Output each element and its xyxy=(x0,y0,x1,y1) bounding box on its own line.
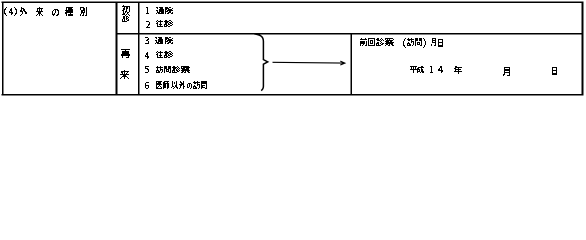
title text '(4)外 来 の 種 別' xyxy=(4,7,87,16)
item text '訪問診察' row5 xyxy=(156,66,190,73)
horizontal divider under row 2 (初診/再来 boundary) xyxy=(116,33,584,35)
header text '再来' (return visit) xyxy=(120,49,130,79)
item number 4 xyxy=(145,52,149,59)
vertical separator between title cell and visit-type column xyxy=(116,1,118,95)
item number 3 xyxy=(145,37,149,44)
item text '往診' row4 xyxy=(156,51,173,58)
box text '前回診察（訪問）月日' xyxy=(360,38,443,48)
scanned Japanese medical form fragment: outpatient type table xyxy=(0,0,586,99)
vertical separator between visit-type column and item list xyxy=(138,1,140,95)
item number 6 xyxy=(145,82,149,89)
item text '医師以外の訪問' row6 xyxy=(156,81,207,89)
arrow shaft from brace to date box xyxy=(273,61,344,64)
item number 1 xyxy=(146,7,149,14)
item text '往診' row2 xyxy=(156,20,173,27)
item text '通院' row1 xyxy=(156,7,173,14)
outer table border: bottom edge xyxy=(2,94,584,96)
header text '初診' (first visit) xyxy=(122,5,130,22)
item number 2 xyxy=(146,21,150,28)
item text '通院' row3 xyxy=(155,37,173,44)
item number 5 xyxy=(145,66,149,73)
box text '平成 14 年 月 日' xyxy=(410,66,557,76)
curly brace grouping rows 3-6 xyxy=(254,34,268,91)
arrow head xyxy=(340,61,345,65)
outer table border: left edge xyxy=(2,1,4,95)
outer table border: right edge xyxy=(582,1,584,95)
left edge of previous-examination-date box xyxy=(350,33,352,96)
outer table border: top edge xyxy=(2,1,584,3)
